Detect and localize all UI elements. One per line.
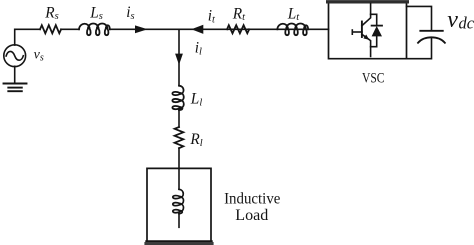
svg-text:Rl: Rl xyxy=(189,131,202,149)
svg-text:Load: Load xyxy=(235,207,268,224)
svg-text:vdc: vdc xyxy=(447,7,474,33)
wire VSC top to capacitor xyxy=(407,6,432,30)
wire Ls to junction xyxy=(110,28,179,30)
wire Rs to Ls xyxy=(61,28,79,30)
svg-text:vs: vs xyxy=(34,48,44,64)
ground xyxy=(4,84,27,92)
current arrow it xyxy=(191,25,203,34)
inductive load box xyxy=(146,168,212,243)
resistor Rl xyxy=(175,127,184,148)
resistor Rs xyxy=(40,25,61,33)
capacitor Cdc xyxy=(418,31,445,43)
svg-text:Ll: Ll xyxy=(190,90,203,108)
IGBT Q1 xyxy=(352,3,370,56)
svg-text:is: is xyxy=(126,4,134,22)
svg-text:Rt: Rt xyxy=(232,5,246,23)
wire source up and to Rs xyxy=(15,29,40,45)
diode D1 xyxy=(371,14,382,46)
inductor Ll xyxy=(172,86,183,110)
inductor Ls xyxy=(79,24,110,36)
load inductor xyxy=(173,168,184,227)
wire capacitor bottom to VSC xyxy=(407,38,432,59)
svg-text:VSC: VSC xyxy=(362,71,385,87)
inductor Lt xyxy=(277,24,308,36)
wire source to ground xyxy=(14,66,16,83)
svg-text:Ls: Ls xyxy=(89,4,103,22)
VSC box xyxy=(328,2,408,59)
current arrow il xyxy=(175,54,183,65)
svg-text:il: il xyxy=(195,40,202,58)
wire junction down xyxy=(178,29,180,85)
svg-text:Lt: Lt xyxy=(287,5,301,23)
svg-text:it: it xyxy=(208,7,216,25)
resistor Rt xyxy=(227,25,249,33)
ac source vs xyxy=(4,45,26,67)
wire Rl to load box xyxy=(178,148,180,168)
svg-text:Rs: Rs xyxy=(44,4,58,22)
svg-text:Inductive: Inductive xyxy=(224,191,280,208)
wire Ll to Rl xyxy=(178,111,180,127)
wire junction to VSC box xyxy=(179,28,329,30)
current arrow is xyxy=(135,25,148,33)
